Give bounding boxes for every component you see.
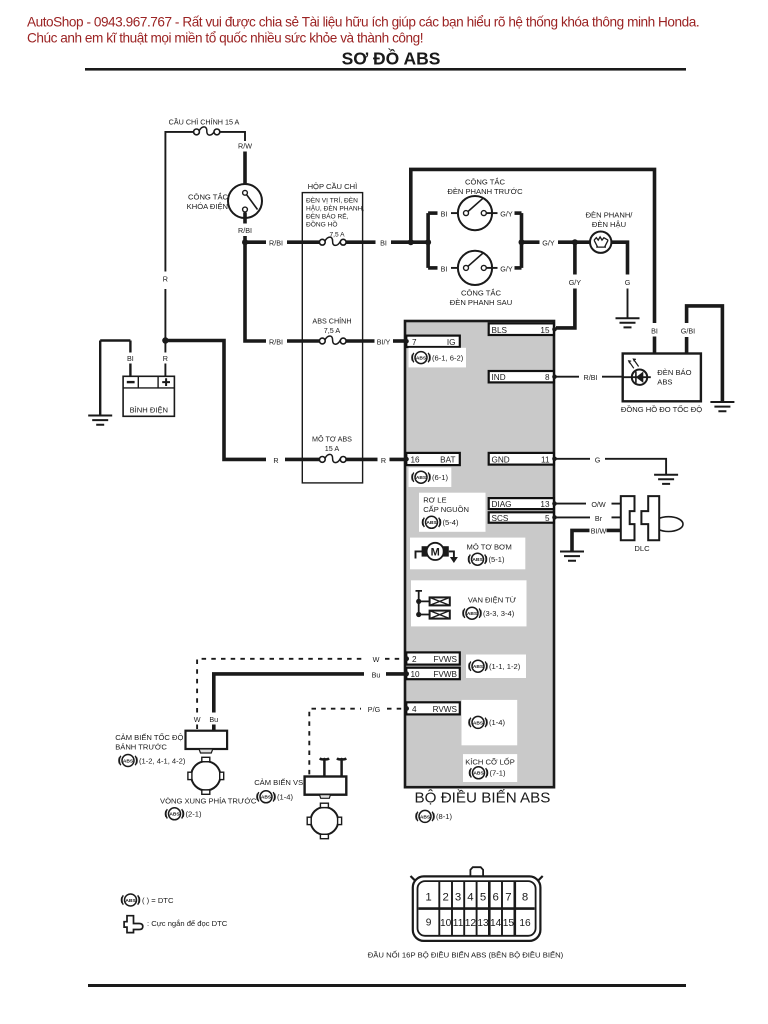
svg-text:RVWS: RVWS [433,705,458,714]
svg-text:16: 16 [411,456,421,465]
pin 5 SCS box [489,512,557,523]
svg-text:BỘ ĐIỀU BIẾN ABS: BỘ ĐIỀU BIẾN ABS [415,790,551,807]
svg-text:BÁNH TRƯỚC: BÁNH TRƯỚC [115,742,167,751]
svg-text:9: 9 [426,917,432,928]
svg-text:(5-4): (5-4) [443,518,460,527]
svg-text:12: 12 [465,918,477,929]
svg-text:VÒNG XUNG PHÍA TRƯỚC: VÒNG XUNG PHÍA TRƯỚC [160,797,257,806]
svg-text:R: R [381,456,386,465]
wire fuse1 out [346,240,376,244]
svg-text:G/Y: G/Y [500,264,513,273]
wire W to pin2 [385,658,404,660]
wire G/Y down from junction [573,242,577,274]
front switch contacts [464,211,469,216]
wire G/Y label to lamp junction [558,240,590,244]
wire main fuse left loop [165,132,193,272]
svg-text:(6-1): (6-1) [432,473,449,482]
wire switch to R/BI label [243,213,247,224]
svg-text:HẬU, ĐÈN PHANH,: HẬU, ĐÈN PHANH, [306,204,364,213]
svg-text:3: 3 [455,891,461,903]
LED D1 [623,359,651,385]
ground gnd pin [654,475,678,484]
svg-text:CẤP NGUỒN: CẤP NGUỒN [423,504,469,514]
svg-text:(6-1, 6-2): (6-1, 6-2) [432,353,464,362]
svg-text:(3-3, 3-4): (3-3, 3-4) [483,609,515,618]
wire R/BI to den bao box [602,376,623,378]
svg-text:BI: BI [651,327,658,336]
ground BI/W [560,552,584,561]
svg-text:FVWB: FVWB [433,670,457,679]
wire SCS to Br [556,516,590,518]
node junction lamp [572,239,578,245]
svg-text:HỘP CẦU CHÌ: HỘP CẦU CHÌ [308,181,358,191]
pin 15 BLS box [489,323,557,335]
legend jumper symbol [124,916,143,933]
svg-text:ĐÈN PHANH TRƯỚC: ĐÈN PHANH TRƯỚC [447,187,523,196]
DLC loop ellipse [654,517,683,532]
svg-text:BI: BI [441,264,448,273]
svg-text:10: 10 [411,670,421,679]
svg-text:IG: IG [447,338,456,347]
svg-text:ĐÈN PHANH SAU: ĐÈN PHANH SAU [450,298,512,307]
svg-text:IND: IND [492,373,506,382]
badge ABS 6-1 6-2 [409,348,467,368]
svg-text:2: 2 [443,891,449,903]
16P connector outline [411,867,543,941]
wire left bracket [426,213,430,268]
wire R/BI to junction [243,236,247,242]
fuse F3 symbol [319,454,346,462]
wire fuse2 in [302,339,320,343]
wire Br to DLC [612,516,621,518]
badge ABS 1-4 vs [257,791,294,803]
svg-text:DIAG: DIAG [492,500,512,509]
wire R to pin16 [390,458,407,462]
wire BI label to rear contact [451,267,463,269]
fuse F3 text MO TO ABS [312,435,352,454]
wire O/W to DLC [612,503,621,505]
wire rear contact right [486,267,497,269]
svg-text:7: 7 [412,338,417,347]
svg-text:Bu: Bu [372,670,381,679]
svg-text:CÔNG TẮC: CÔNG TẮC [188,193,228,202]
svg-text:(1-2, 4-1, 4-2): (1-2, 4-1, 4-2) [139,756,186,765]
svg-text:ĐẦU NỐI 16P BỘ ĐIỀU BIẾN ABS (: ĐẦU NỐI 16P BỘ ĐIỀU BIẾN ABS (BÊN BỘ ĐIỀ… [368,950,564,960]
wire Bu solid [214,674,364,713]
wire lamp to G corner [611,242,627,274]
svg-text:11: 11 [541,455,550,464]
battery minus sign [127,381,135,383]
pin 10 FVWB box [404,668,460,680]
wire G to ground [627,289,629,319]
VS sensor pins [320,758,347,776]
svg-text:6: 6 [493,891,499,903]
svg-text:R: R [273,456,278,465]
svg-text:CẦU CHÌ CHÍNH 15 A: CẦU CHÌ CHÍNH 15 A [169,117,240,127]
svg-text:13: 13 [540,500,550,509]
svg-text:W: W [373,655,380,664]
svg-text:(7-1): (7-1) [490,769,507,778]
wire fuse1 in [302,240,320,244]
pin 7 IG box [404,336,460,347]
svg-text:13: 13 [477,918,489,929]
rear switch contacts [464,265,469,270]
front pulse ring [188,757,224,794]
svg-text:15: 15 [503,918,515,929]
svg-text:KÍCH CỠ LỐP: KÍCH CỠ LỐP [465,757,515,767]
svg-text:ĐÈN HẬU: ĐÈN HẬU [592,220,626,229]
svg-text:(8-1): (8-1) [436,812,453,821]
wire Bu stub [212,725,216,731]
svg-text:G/Y: G/Y [542,239,555,248]
wire G to ground right [605,459,666,475]
wire front switch left stub [428,211,437,215]
wire fuse3 in [302,458,320,462]
svg-text:CẢM BIẾN VS: CẢM BIẾN VS [254,777,303,787]
svg-text:4: 4 [412,705,417,714]
solenoid valve symbols [416,591,450,619]
wire BI up and over to DEN BAO [411,169,655,323]
rear switch blade [468,253,484,267]
ABS modulator module body [405,321,554,787]
svg-text:RƠ LE: RƠ LE [423,496,446,505]
badge ABS 8-1 [416,810,453,822]
svg-text:BI/Y: BI/Y [377,337,391,346]
svg-text:Br: Br [595,514,603,523]
ground lamp [616,318,640,327]
svg-text:5: 5 [480,891,486,903]
pump motor M1 symbol [416,543,458,563]
battery BAT1 box [123,376,174,416]
wire right bracket [520,213,524,268]
legend badge DTC [121,894,174,906]
wire W dashed [197,659,365,713]
wire BI stub lower [129,364,131,377]
ignition switch Q1 body [228,184,262,218]
svg-text:ĐÈN VỊ TRÍ, ĐÈN: ĐÈN VỊ TRÍ, ĐÈN [306,196,358,205]
wire bracket out right [522,240,540,244]
ignition switch contacts [243,190,248,195]
node junction right bracket [519,239,525,245]
fuse F2 symbol [319,336,346,344]
bottom rule [88,984,686,987]
DLC connector right half [641,496,659,540]
wire P/G dashed [309,709,361,775]
svg-text:8: 8 [522,891,528,903]
pump motor white box [410,538,525,570]
wire battery left horizontal [100,339,130,341]
wire DIAG to O/W [556,503,586,505]
svg-text:Chúc anh em kĩ thuật mọi miền: Chúc anh em kĩ thuật mọi miền tổ quốc nh… [27,31,423,46]
wire G/Y to right bracket top [515,211,522,215]
svg-text:R/BI: R/BI [269,239,283,248]
svg-text:8: 8 [545,373,550,382]
badge ABS 1-1 1-2 [466,655,526,679]
node junction left bracket [425,239,431,245]
wire P/G to pin4 [387,708,404,710]
wire R/W to switch [243,152,247,191]
front switch blade [468,198,484,212]
fuse F1 symbol [319,237,346,245]
VS sensor tab [320,795,331,799]
16P connector numbers row1 [425,891,528,903]
svg-text:R/BI: R/BI [238,226,252,235]
svg-text:14: 14 [490,918,502,929]
svg-text:BAT: BAT [440,456,455,465]
wire BI to bracket [391,240,428,244]
pin 8 IND box [489,371,557,382]
node junction ignition [242,239,248,245]
front brake switch S1 body [458,196,492,230]
lamp filament [594,237,608,247]
svg-text:BI: BI [380,239,387,248]
solenoid valve white box [411,580,527,626]
battery plus sign [162,378,170,386]
svg-text:( ) = DTC: ( ) = DTC [142,896,174,905]
ground battery [88,416,112,425]
VS sensor box [305,777,347,795]
fuse box rect HOP CAU CHI [302,193,362,483]
svg-text:ĐÈN PHANH/: ĐÈN PHANH/ [586,211,634,220]
wire BI/W to ground [572,530,621,551]
badge ABS 2-1 [165,808,202,820]
fuse F0 symbol [194,127,220,135]
lamp L1 brake/tail body [590,232,611,253]
wire junction right to fuse1 [245,240,266,244]
svg-text:ABS CHÍNH: ABS CHÍNH [312,317,351,326]
svg-text:BLS: BLS [492,326,508,335]
svg-text:CÔNG TẮC: CÔNG TẮC [461,289,501,298]
svg-text:G: G [625,278,631,287]
svg-text:G: G [595,455,601,464]
svg-text:BI: BI [441,210,448,219]
svg-text:KHÓA ĐIỆN: KHÓA ĐIỆN [187,202,228,211]
svg-text:4: 4 [467,891,473,903]
svg-text:DLC: DLC [634,544,650,553]
wire G/Y rear to bracket [515,266,522,270]
svg-text:R/BI: R/BI [269,337,283,346]
DLC connector left half [621,496,635,540]
svg-text:R: R [163,274,168,283]
wire junction down to fuse2 row [245,242,266,341]
svg-text:5: 5 [545,514,550,523]
pin 11 GND box [489,453,557,465]
svg-text:R/BI: R/BI [584,373,598,382]
svg-text:MÔ TƠ ABS: MÔ TƠ ABS [312,435,352,444]
wire battery ground drop [99,341,101,416]
svg-text:Bu: Bu [209,715,218,724]
wire R label to fuse3 [285,458,320,462]
svg-text:16: 16 [519,918,531,929]
pin 16 BAT box [404,453,460,465]
svg-text:2: 2 [412,655,417,664]
wire BI stub upper [129,341,131,353]
16P connector grid [419,882,535,936]
svg-text:M: M [431,547,440,559]
svg-text:BÌNH ĐIỆN: BÌNH ĐIỆN [130,406,168,415]
svg-text:P/G: P/G [368,705,381,714]
svg-text:O/W: O/W [591,500,606,509]
fuse F2 text ABS CHINH [312,317,351,336]
svg-text:: Cực ngắn để đọc DTC: : Cực ngắn để đọc DTC [147,919,228,928]
svg-text:FVWS: FVWS [433,655,457,664]
wire fuse3 out [346,458,378,462]
svg-text:7,5 A: 7,5 A [324,326,341,335]
svg-text:10: 10 [440,918,452,929]
svg-text:15 A: 15 A [325,444,340,453]
svg-text:W: W [194,715,201,724]
svg-text:ĐÈN BÁO RẼ,: ĐÈN BÁO RẼ, [306,212,349,221]
wire BI label to front contact [451,212,463,214]
wire front contact right [486,212,497,214]
wire G/BI loop to ground [687,306,723,402]
svg-text:(1-1, 1-2): (1-1, 1-2) [489,662,521,671]
svg-text:ABS: ABS [657,378,672,387]
svg-text:R: R [163,354,168,363]
svg-text:G/BI: G/BI [681,327,695,336]
wire GND out [556,458,590,460]
svg-text:7: 7 [505,891,511,903]
svg-text:SCS: SCS [492,514,509,523]
wire fuse to R/W corner [220,132,246,141]
badge ABS 1-2 4-1 4-2 [119,755,186,767]
wire Bu to pin10 [386,672,404,676]
svg-text:G/Y: G/Y [569,278,582,287]
16P connector numbers row2 [426,917,531,928]
svg-text:(2-1): (2-1) [186,810,203,819]
svg-text:MÔ TƠ BƠM: MÔ TƠ BƠM [467,542,512,551]
wire R/BI label to fuse1 [287,240,320,244]
wire IND to R/BI [556,376,579,378]
wire R to battery junction [164,289,166,341]
pin 13 DIAG box [489,498,557,509]
ground den bao [710,402,734,411]
front wheel sensor box [186,731,228,749]
svg-text:R/W: R/W [238,142,252,151]
svg-text:ĐÈN BÁO: ĐÈN BÁO [657,368,691,377]
node junction BI up [408,239,414,245]
svg-text:BI/W: BI/W [591,527,607,536]
rear pulse ring [307,803,341,839]
svg-text:15: 15 [540,326,550,335]
fuse F1 text [306,196,364,239]
svg-text:BI: BI [127,354,134,363]
den bao ABS box U2 [623,354,701,402]
wire fuse2 out [346,339,375,343]
wire R stub lower [164,364,166,377]
svg-text:AutoShop - 0943.967.767 - Rất: AutoShop - 0943.967.767 - Rất vui được c… [27,15,699,30]
svg-text:(1-4): (1-4) [277,793,294,802]
wire G/Y to BLS pin [556,289,575,328]
svg-text:11: 11 [453,918,464,929]
svg-text:CÔNG TẮC: CÔNG TẮC [465,178,505,187]
front sensor tab [199,749,213,753]
pin 4 RVWS box [404,702,460,714]
svg-text:SƠ ĐỒ ABS: SƠ ĐỒ ABS [342,47,441,68]
badge ABS 6-1 [409,468,452,488]
svg-text:ĐỒNG HỒ ĐO TỐC ĐỘ: ĐỒNG HỒ ĐO TỐC ĐỘ [621,404,702,414]
svg-text:VAN ĐIỆN TỪ: VAN ĐIỆN TỪ [468,596,517,605]
battery terminal row [123,376,174,388]
wire R stub upper [164,341,166,353]
svg-text:CẢM BIẾN TỐC ĐỘ: CẢM BIẾN TỐC ĐỘ [115,732,183,742]
wire W stub [196,725,198,731]
svg-text:G/Y: G/Y [500,210,513,219]
svg-text:(1-4): (1-4) [489,718,506,727]
ignition switch blade [247,195,258,210]
title underline [85,68,686,71]
wire rear switch left stub [428,266,437,270]
wire BI into den bao box [653,337,657,354]
tire size box KICH CO LOP [463,754,517,782]
rear brake switch S2 body [458,251,492,285]
wire battery R to motor fuse [165,341,266,460]
wire R/BI label to fuse2 [287,339,320,343]
svg-text:GND: GND [492,455,510,464]
pin 2 FVWS box [404,652,460,664]
badge ABS 1-4 module [462,700,518,745]
wire BI/Y to pin7 [393,339,406,343]
svg-text:(5-1): (5-1) [489,555,506,564]
node junction battery R [162,337,168,343]
svg-text:1: 1 [425,891,431,903]
relay box RO LE CAP NGUON [419,493,486,532]
wire G/BI upper [685,337,689,354]
